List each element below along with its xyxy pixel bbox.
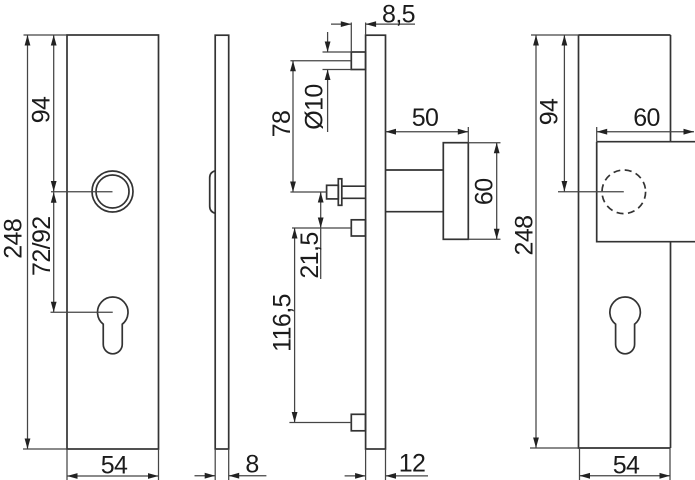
dimension 60 knob xyxy=(468,143,500,240)
knob centerline left plate xyxy=(51,191,113,193)
svg-text:94: 94 xyxy=(27,96,55,123)
upper screw centerline xyxy=(292,227,351,229)
svg-text:60: 60 xyxy=(471,178,499,205)
knob hole outer circle xyxy=(92,171,133,212)
knob neck xyxy=(386,170,444,212)
pin bottom edge extension xyxy=(323,69,352,71)
dimension 8,5 xyxy=(331,1,415,52)
dimension 60 block xyxy=(597,104,694,142)
dimension 116,5 xyxy=(269,228,298,423)
svg-text:248: 248 xyxy=(511,216,539,256)
svg-text:12: 12 xyxy=(399,450,426,478)
svg-text:Ø10: Ø10 xyxy=(301,84,329,129)
pin top edge extension xyxy=(323,51,352,53)
dimension 72/92 xyxy=(28,192,57,312)
keyhole centerline left plate xyxy=(51,311,113,313)
svg-text:8,5: 8,5 xyxy=(382,1,415,29)
dimension 94 right xyxy=(536,35,568,192)
cylinder fixing pin xyxy=(351,52,365,70)
keyhole left plate xyxy=(97,297,128,354)
dimension 8 xyxy=(195,449,267,480)
svg-text:21,5: 21,5 xyxy=(296,232,324,278)
spindle washer xyxy=(338,179,342,206)
dimension 248 right xyxy=(511,35,539,448)
dimension 50 xyxy=(386,104,469,143)
dimension 78 xyxy=(268,61,296,192)
keyhole right plate xyxy=(610,297,641,354)
dimension 54 right xyxy=(580,448,671,480)
dimension 54 left xyxy=(67,449,159,480)
svg-text:94: 94 xyxy=(536,98,564,125)
svg-text:60: 60 xyxy=(633,104,660,132)
right plate outline xyxy=(579,35,671,448)
upper fixing screw xyxy=(351,220,365,236)
pin centerline xyxy=(290,60,351,62)
svg-text:54: 54 xyxy=(101,452,128,480)
knob head xyxy=(443,143,468,240)
dimension 248 left xyxy=(0,35,30,449)
middle plate upper extension line xyxy=(365,23,367,36)
spindle shaft xyxy=(342,186,366,198)
side view plate outline xyxy=(215,35,229,449)
dimension 94 left xyxy=(27,35,56,192)
svg-text:54: 54 xyxy=(613,452,640,480)
svg-text:50: 50 xyxy=(412,104,439,132)
dimension diameter 10 xyxy=(301,32,331,132)
spindle bolt head xyxy=(327,185,339,199)
lower screw centerline xyxy=(289,422,351,424)
dashed knob circle xyxy=(602,170,646,214)
svg-text:248: 248 xyxy=(0,219,27,259)
dimension 12 xyxy=(345,450,428,479)
rosette bump side view xyxy=(210,171,216,214)
left plate bottom extension line xyxy=(23,448,67,450)
middle plate side view outline xyxy=(366,35,386,449)
middle plate lower extension lines xyxy=(365,449,367,480)
svg-text:78: 78 xyxy=(268,111,296,138)
lower fixing screw xyxy=(351,414,365,431)
svg-text:72/92: 72/92 xyxy=(28,216,56,276)
knob block xyxy=(597,142,695,242)
knob centerline right plate xyxy=(558,191,624,193)
right plate top extension line xyxy=(531,34,579,36)
knob hole inner circle xyxy=(96,175,129,208)
svg-text:116,5: 116,5 xyxy=(269,294,297,352)
spindle centerline extension xyxy=(290,191,326,193)
left plate outline xyxy=(67,35,159,449)
dimension 21,5 xyxy=(296,192,324,279)
svg-text:8: 8 xyxy=(245,451,258,479)
right plate bottom extension line xyxy=(530,447,579,449)
left plate top extension line xyxy=(24,34,68,36)
